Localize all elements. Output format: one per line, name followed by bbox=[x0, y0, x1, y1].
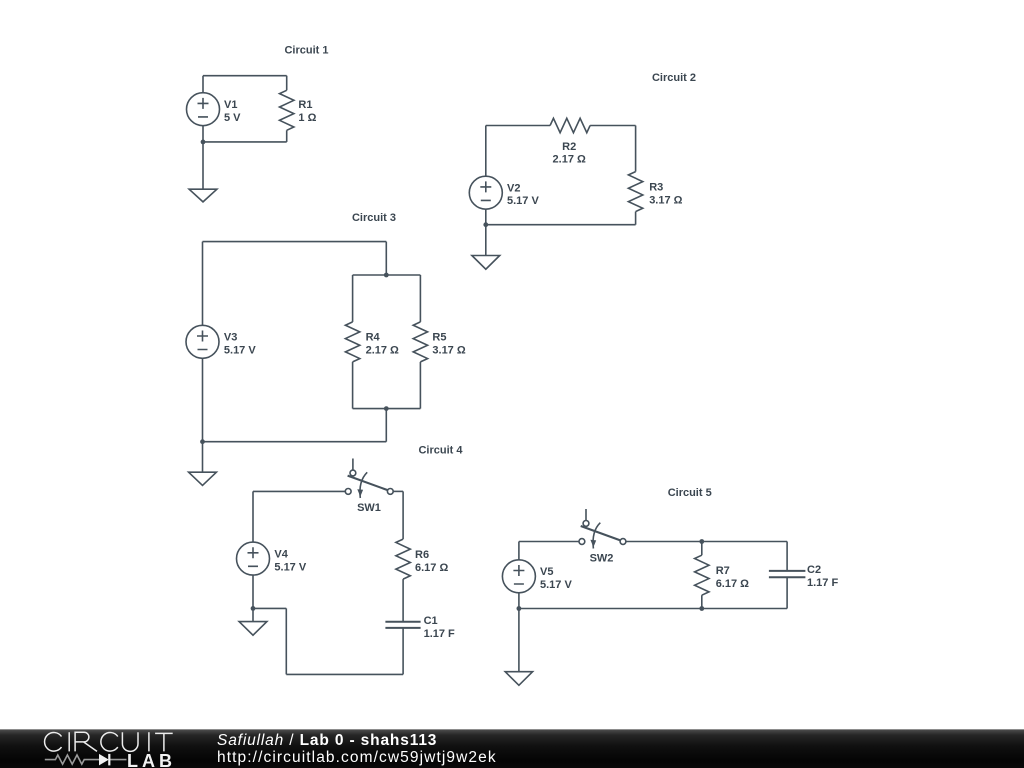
wire top rail circuit 1 bbox=[203, 75, 287, 77]
wire bottom rail circuit 4 bbox=[286, 673, 403, 675]
logo LAB text bbox=[127, 752, 176, 768]
node junction R7 bottom bbox=[699, 606, 704, 611]
svg-text:SW1: SW1 bbox=[357, 502, 381, 514]
svg-text:1.17 F: 1.17 F bbox=[807, 577, 838, 589]
svg-text:R5: R5 bbox=[432, 332, 446, 344]
switch SW2 bbox=[579, 509, 626, 549]
svg-text:5.17 V: 5.17 V bbox=[224, 345, 256, 357]
svg-text:Circuit 4: Circuit 4 bbox=[418, 445, 463, 457]
svg-text:V3: V3 bbox=[224, 332, 237, 344]
wire V3 top lead bbox=[202, 242, 204, 326]
node junction R7 top bbox=[699, 539, 704, 544]
svg-text:R2: R2 bbox=[562, 141, 576, 153]
node junction V5- / ground bbox=[517, 606, 522, 611]
footer title bbox=[217, 732, 437, 750]
wire parallel-pair bottom drop bbox=[385, 409, 387, 442]
wire bottom-left riser circuit 4 bbox=[285, 608, 287, 674]
wire bottom rail circuit 2 bbox=[486, 224, 636, 226]
svg-text:V5: V5 bbox=[540, 566, 553, 578]
svg-text:5.17 V: 5.17 V bbox=[540, 579, 572, 591]
ground GND3 bbox=[189, 472, 217, 485]
ground GND2 bbox=[472, 256, 500, 270]
svg-text:R6: R6 bbox=[415, 549, 429, 561]
wire ground lead circuit 4 bbox=[252, 608, 254, 621]
voltage source V3 bbox=[186, 325, 219, 358]
ground GND4 bbox=[239, 622, 267, 636]
svg-text:R1: R1 bbox=[298, 99, 312, 111]
wire to V4 bottom node bbox=[253, 607, 286, 609]
svg-text:Circuit 2: Circuit 2 bbox=[652, 72, 696, 84]
wire bottom rail circuit 1 bbox=[203, 141, 287, 143]
svg-text:Circuit 1: Circuit 1 bbox=[284, 45, 328, 57]
resistor R5 bbox=[413, 275, 427, 409]
wire top rail circuit 4 bbox=[253, 490, 345, 492]
node junction V2- / ground bbox=[483, 222, 488, 227]
node junction V3- / ground bbox=[200, 439, 205, 444]
voltage source V4 bbox=[237, 542, 270, 575]
node junction parallel bottom bbox=[384, 406, 389, 411]
logo diode bbox=[99, 754, 109, 766]
resistor R7 bbox=[695, 542, 709, 609]
wire V2 top lead bbox=[485, 126, 487, 177]
svg-text:5 V: 5 V bbox=[224, 112, 241, 124]
logo letter U bbox=[122, 732, 138, 751]
voltage source V1 bbox=[187, 93, 220, 126]
svg-text:5.17 V: 5.17 V bbox=[274, 561, 306, 573]
wire bottom rail circuit 5 bbox=[519, 608, 787, 610]
wire top rail right circuit 2 bbox=[590, 125, 636, 127]
wire R6 top lead bbox=[402, 491, 404, 539]
wire SW1 to corner bbox=[393, 490, 403, 492]
voltage source V5 bbox=[502, 560, 535, 593]
node junction V4- / ground bbox=[251, 606, 256, 611]
footer url bbox=[217, 749, 497, 767]
node junction V1- / ground bbox=[201, 140, 206, 145]
wire top rail left circuit 5 bbox=[519, 541, 579, 543]
wire V3 bottom lead bbox=[202, 358, 204, 441]
resistor R3 bbox=[628, 126, 642, 225]
svg-text:2.17 Ω: 2.17 Ω bbox=[366, 345, 399, 357]
svg-text:3.17 Ω: 3.17 Ω bbox=[649, 194, 682, 206]
wire V2 bottom lead bbox=[485, 209, 487, 225]
wire V1 bottom lead bbox=[202, 126, 204, 142]
logo letter C bbox=[45, 733, 62, 752]
logo letter I bbox=[148, 732, 150, 751]
svg-text:2.17 Ω: 2.17 Ω bbox=[553, 153, 586, 165]
svg-text:V4: V4 bbox=[274, 548, 288, 560]
ground GND1 bbox=[189, 189, 217, 202]
resistor R4 bbox=[345, 275, 359, 409]
svg-text:R7: R7 bbox=[716, 565, 730, 577]
switch SW1 bbox=[345, 459, 393, 499]
capacitor C1 bbox=[385, 622, 420, 675]
svg-text:1.17 F: 1.17 F bbox=[424, 628, 455, 640]
logo resistor squiggle bbox=[45, 755, 99, 764]
ground GND5 bbox=[505, 672, 532, 686]
svg-text:R3: R3 bbox=[649, 181, 663, 193]
svg-text:SW2: SW2 bbox=[590, 552, 614, 564]
wire V4 bottom lead bbox=[252, 575, 254, 608]
svg-text:6.17 Ω: 6.17 Ω bbox=[716, 578, 749, 590]
wire R7 node to C2 corner bbox=[702, 541, 787, 543]
wire bottom rail circuit 3 bbox=[203, 441, 387, 443]
wire ground lead circuit 1 bbox=[202, 142, 204, 189]
resistor R6 bbox=[396, 539, 410, 622]
logo letter C bbox=[101, 733, 118, 752]
svg-text:C1: C1 bbox=[424, 615, 438, 627]
svg-text:1 Ω: 1 Ω bbox=[298, 112, 316, 124]
svg-text:Circuit 5: Circuit 5 bbox=[668, 487, 712, 499]
svg-text:R4: R4 bbox=[366, 332, 381, 344]
svg-text:5.17 V: 5.17 V bbox=[507, 195, 539, 207]
logo diode lead bbox=[109, 759, 126, 761]
logo letter I bbox=[68, 732, 70, 751]
wire V5 bottom lead bbox=[518, 593, 520, 609]
logo letter R bbox=[75, 732, 97, 751]
node junction parallel top bbox=[384, 273, 389, 278]
svg-text:C2: C2 bbox=[807, 564, 821, 576]
voltage source V2 bbox=[469, 176, 502, 209]
wire top rail left circuit 2 bbox=[486, 125, 550, 127]
svg-text:6.17 Ω: 6.17 Ω bbox=[415, 562, 448, 574]
wire ground lead circuit 5 bbox=[518, 609, 520, 672]
logo letter T bbox=[155, 733, 173, 751]
wire V5 top lead bbox=[518, 542, 520, 560]
wire ground lead circuit 2 bbox=[485, 225, 487, 256]
resistor R2 bbox=[550, 118, 590, 132]
footer bar bbox=[0, 729, 1024, 768]
wire parallel top bar bbox=[353, 274, 421, 276]
wire parallel bottom bar bbox=[353, 408, 421, 410]
wire SW2 to R7 node bbox=[626, 541, 702, 543]
capacitor C2 bbox=[769, 542, 806, 609]
svg-text:V2: V2 bbox=[507, 183, 520, 195]
resistor R1 bbox=[280, 76, 294, 142]
wire top rail circuit 3 bbox=[203, 241, 387, 243]
wire parallel-pair top drop bbox=[385, 242, 387, 275]
svg-text:V1: V1 bbox=[224, 99, 237, 111]
wire V4 top lead bbox=[252, 491, 254, 542]
svg-text:Circuit 3: Circuit 3 bbox=[352, 212, 396, 224]
wire V1 top lead bbox=[202, 76, 204, 93]
wire ground lead circuit 3 bbox=[202, 442, 204, 473]
CircuitLab logo bbox=[0, 729, 190, 768]
svg-text:3.17 Ω: 3.17 Ω bbox=[432, 345, 465, 357]
